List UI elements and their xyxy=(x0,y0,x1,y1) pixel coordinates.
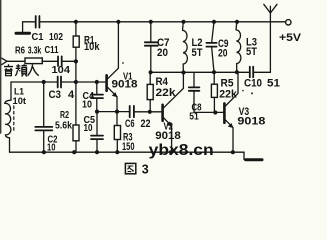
node V1 collector top xyxy=(116,20,120,24)
node C3 right / R2 top xyxy=(74,80,78,84)
wire L1 corner to C3 xyxy=(11,81,57,83)
node L2 top xyxy=(181,20,185,24)
node C2 bottom xyxy=(42,150,46,154)
resistor R5 xyxy=(213,72,215,84)
wire C3 to V1 base xyxy=(61,81,106,83)
svg-text:3.3k: 3.3k xyxy=(28,46,42,57)
svg-text:C11: C11 xyxy=(45,45,59,56)
label 音频入 (audio input, drawn strokes) xyxy=(4,64,39,76)
svg-text:102: 102 xyxy=(49,32,63,43)
wire R6 to C11 xyxy=(42,60,58,62)
capacitor C2 xyxy=(43,82,45,127)
transistor V3 xyxy=(223,103,226,122)
left scan edge artifact xyxy=(0,0,2,133)
svg-text:22k: 22k xyxy=(156,87,177,99)
svg-text:10: 10 xyxy=(82,99,92,111)
capacitor C9 xyxy=(212,22,214,43)
node R4 bottom xyxy=(148,110,152,114)
svg-text:C3: C3 xyxy=(49,89,62,101)
node C11/R1 junction xyxy=(74,59,78,63)
wire C11 to base node xyxy=(62,60,76,62)
capacitor C6 xyxy=(130,106,134,117)
wire C10 to antenna mast xyxy=(253,71,270,73)
node C7 top xyxy=(149,20,153,24)
capacitor C7 xyxy=(150,22,152,43)
inductor L2 xyxy=(183,22,188,73)
bottom ground rail xyxy=(10,151,244,153)
svg-text:R5: R5 xyxy=(221,77,234,89)
svg-text:22: 22 xyxy=(141,118,151,130)
svg-text:22k: 22k xyxy=(219,89,237,101)
resistor R2 xyxy=(75,82,77,125)
inductor L1 xyxy=(5,82,11,152)
svg-text:5.6k: 5.6k xyxy=(55,120,72,132)
node L2/V2 collector xyxy=(181,70,185,74)
wire ground to C1 xyxy=(23,22,36,33)
inductor L3 xyxy=(236,22,241,72)
svg-text:5T: 5T xyxy=(192,47,203,59)
svg-text:R6: R6 xyxy=(15,46,25,57)
node R3 bottom xyxy=(115,150,119,154)
svg-text:ybx8.cn: ybx8.cn xyxy=(149,142,214,159)
capacitor C4 xyxy=(96,82,98,95)
svg-text:20: 20 xyxy=(218,48,228,60)
node C9/R5 on tank line xyxy=(212,70,216,74)
svg-text:10: 10 xyxy=(47,142,56,154)
transistor V1 xyxy=(105,75,108,91)
capacitor C5 xyxy=(96,112,98,136)
wire C6 to V2 base xyxy=(134,111,162,113)
svg-text:4: 4 xyxy=(68,89,75,101)
node C4/C5/emitter-line junction xyxy=(95,110,99,114)
svg-text:51: 51 xyxy=(189,112,199,123)
node L3/V3 collector xyxy=(235,70,239,74)
+5V terminal xyxy=(286,20,291,25)
audio input arrow xyxy=(2,58,7,64)
transistor V2 xyxy=(161,105,164,121)
wire C1 to +5V rail xyxy=(39,21,285,23)
svg-text:51: 51 xyxy=(267,77,280,89)
node V2 emitter bottom xyxy=(169,150,173,154)
node R1 top xyxy=(74,20,78,24)
svg-text:9018: 9018 xyxy=(237,115,265,127)
svg-text:150: 150 xyxy=(122,141,135,153)
svg-text:3: 3 xyxy=(142,163,149,177)
svg-text:9018: 9018 xyxy=(112,79,138,91)
svg-text:5T: 5T xyxy=(246,46,257,58)
svg-text:20: 20 xyxy=(157,47,168,59)
capacitor C8 xyxy=(193,72,195,87)
resistor R3 xyxy=(116,112,118,126)
node V1 emitter xyxy=(115,110,119,114)
node C5 bottom xyxy=(95,150,99,154)
tank line (V2 collector bus) xyxy=(151,71,250,73)
L1 dashed core xyxy=(13,106,15,131)
emitter line V1 to C6 xyxy=(97,111,129,113)
resistor R6 xyxy=(25,58,42,64)
ground (bottom-right) xyxy=(243,152,245,159)
svg-text:10t: 10t xyxy=(13,96,27,107)
specks xyxy=(122,62,124,64)
resistor R4 xyxy=(149,72,151,84)
node L3 top xyxy=(235,20,239,24)
wire junction down to V1 base line xyxy=(75,61,77,82)
svg-text:9018: 9018 xyxy=(155,130,181,142)
node C9 top xyxy=(212,20,216,24)
node C2 top xyxy=(42,80,46,84)
ground (top-left, thick bar) xyxy=(16,32,30,35)
node R2 bottom xyxy=(72,150,76,154)
node C4 top xyxy=(95,80,99,84)
caption 图 3 xyxy=(125,163,135,173)
capacitor C1 xyxy=(36,16,40,28)
svg-text:+5V: +5V xyxy=(279,32,302,44)
wire C8 to V3 base xyxy=(194,111,223,113)
svg-text:10k: 10k xyxy=(84,41,100,53)
capacitor C11 xyxy=(58,56,62,66)
antenna xyxy=(269,6,271,72)
svg-text:C10: C10 xyxy=(244,77,262,89)
svg-text:104: 104 xyxy=(52,64,71,76)
svg-text:10: 10 xyxy=(84,122,93,134)
node C7/R4 on tank line xyxy=(149,70,153,74)
svg-text:C1: C1 xyxy=(32,32,44,43)
capacitor C10 xyxy=(250,67,253,78)
resistor R1 xyxy=(75,22,77,36)
node V3 emitter bottom xyxy=(231,150,235,154)
node R5 bottom xyxy=(213,110,217,114)
capacitor C3 xyxy=(58,77,61,88)
svg-text:C6: C6 xyxy=(125,118,135,130)
